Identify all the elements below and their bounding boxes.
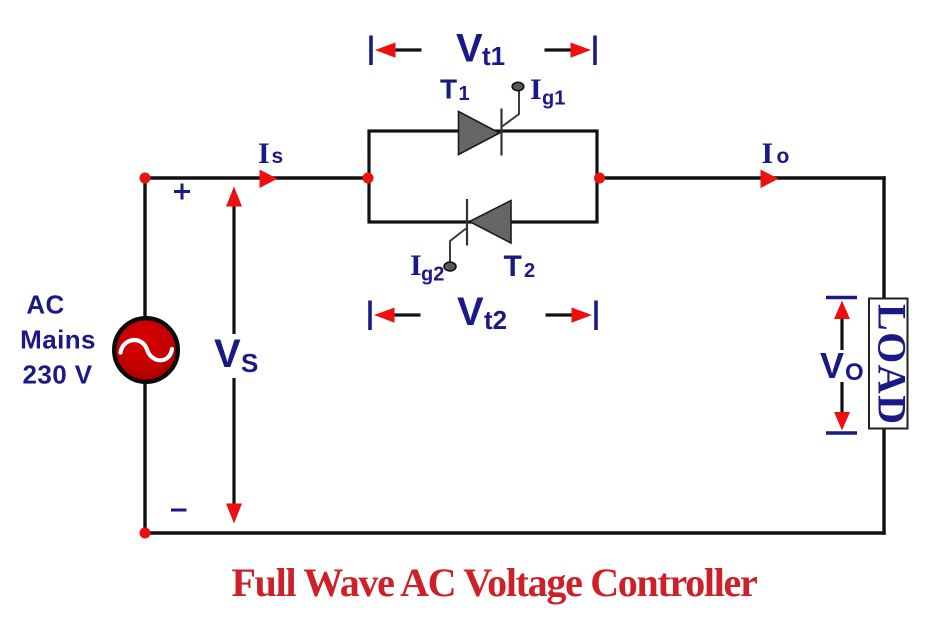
svg-text:I: I bbox=[258, 137, 270, 170]
svg-text:T: T bbox=[440, 74, 457, 105]
plus sign bbox=[174, 184, 190, 200]
svg-text:Full Wave AC Voltage Controlle: Full Wave AC Voltage Controller bbox=[232, 560, 757, 605]
dimension Vt1 left arrow bbox=[375, 43, 422, 58]
svg-text:Mains: Mains bbox=[20, 325, 96, 355]
measurement Vo top bar bbox=[826, 296, 857, 300]
svg-text:S: S bbox=[241, 348, 258, 378]
dimension Vt1 right bar bbox=[593, 36, 597, 66]
minus sign bbox=[171, 509, 187, 512]
wire top-left (source to thyristor box) bbox=[145, 176, 369, 179]
thyristor T1 (anode left, pointing right) bbox=[459, 109, 502, 156]
svg-text:T: T bbox=[504, 250, 522, 283]
wire top-right (thyristor box to load corner) bbox=[597, 176, 886, 179]
measurement arrow Vs bbox=[226, 187, 242, 524]
label AC Mains 230 V bbox=[20, 290, 96, 390]
dimension Vt2 right arrow bbox=[546, 308, 593, 323]
dimension Vt1 left bar bbox=[369, 36, 373, 66]
LOAD box bbox=[869, 299, 915, 429]
svg-text:I: I bbox=[530, 73, 542, 106]
thyristor T2 (anode right, pointing left) bbox=[467, 199, 511, 246]
wire right lower (LOAD to bottom wire) bbox=[882, 429, 885, 535]
node: left top junction bbox=[140, 173, 151, 184]
label Vo bbox=[820, 345, 864, 386]
svg-text:V: V bbox=[820, 345, 844, 386]
dimension Vt2 left bar bbox=[368, 301, 372, 331]
svg-text:AC: AC bbox=[26, 290, 64, 320]
current arrow Io bbox=[761, 170, 779, 189]
thyristor parallel box bbox=[369, 131, 597, 222]
gate lead G1 bbox=[502, 82, 524, 126]
svg-text:t2: t2 bbox=[484, 305, 507, 335]
svg-text:230 V: 230 V bbox=[23, 360, 93, 390]
svg-text:o: o bbox=[777, 145, 790, 168]
wire left lower (AC source to bottom junction) bbox=[143, 378, 146, 533]
svg-text:s: s bbox=[272, 145, 284, 168]
wire left upper (junction to AC source) bbox=[143, 178, 146, 322]
svg-text:I: I bbox=[410, 249, 422, 282]
svg-text:V: V bbox=[214, 332, 241, 376]
svg-text:V: V bbox=[457, 290, 484, 334]
node: box left junction bbox=[363, 173, 374, 184]
wire bottom bbox=[145, 531, 886, 534]
dimension Vt1 right arrow bbox=[545, 43, 592, 58]
svg-text:V: V bbox=[456, 27, 483, 71]
AC source bbox=[114, 318, 178, 382]
svg-text:g2: g2 bbox=[421, 264, 444, 286]
node: left bottom junction bbox=[140, 528, 151, 539]
dimension Vt2 left arrow bbox=[374, 308, 421, 323]
node: box right junction bbox=[594, 173, 605, 184]
svg-text:2: 2 bbox=[524, 260, 535, 282]
svg-text:LOAD: LOAD bbox=[870, 304, 915, 424]
dimension Vt2 right bar bbox=[594, 301, 598, 331]
label Vs bbox=[212, 332, 260, 378]
gate lead G2 bbox=[444, 229, 466, 271]
measurement Vo bottom bar bbox=[826, 431, 857, 435]
svg-text:t1: t1 bbox=[482, 41, 505, 71]
svg-text:O: O bbox=[845, 359, 864, 386]
svg-text:g1: g1 bbox=[542, 88, 565, 110]
current arrow Is bbox=[260, 170, 278, 189]
svg-text:1: 1 bbox=[459, 83, 470, 105]
wire right upper (corner to LOAD) bbox=[882, 176, 885, 299]
svg-text:I: I bbox=[762, 137, 774, 170]
measurement arrow Vo bbox=[834, 301, 850, 431]
